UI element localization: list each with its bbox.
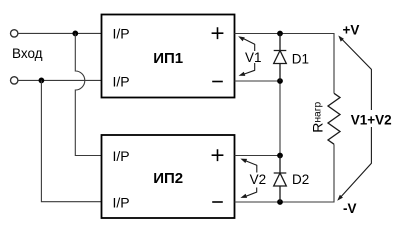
wire IP2 minus output to -V corner and up to resistor bottom (235, 144, 335, 202)
wire IP1 minus to IP2 plus series link (235, 81, 281, 156)
input terminal J1 (11, 30, 18, 37)
svg-text:I/P: I/P (113, 73, 130, 89)
wire IP1 plus output to +V corner and down to resistor (235, 34, 335, 94)
arrowhead to -V corner (337, 195, 343, 201)
svg-text:ИП2: ИП2 (153, 170, 183, 187)
svg-text:Rнагр: Rнагр (310, 102, 326, 133)
svg-text:D1: D1 (292, 52, 309, 67)
V1+V2 measurement line with arrows (339, 37, 372, 200)
svg-text:V2: V2 (250, 172, 267, 187)
V2 bracket arrow to IP2 minus (245, 188, 257, 197)
diode D2 (274, 156, 287, 203)
svg-text:I/P: I/P (113, 26, 130, 42)
power supply block IP1 (102, 15, 235, 98)
svg-text:V1: V1 (245, 50, 262, 65)
V1 bracket arrow to IP1 plus (243, 38, 255, 51)
svg-text:V1+V2: V1+V2 (351, 113, 392, 128)
resistor Rload zigzag (328, 93, 340, 144)
label V1+V2 (349, 110, 393, 127)
node D2 bottom (277, 199, 283, 205)
node D1 bottom (277, 78, 283, 84)
node D1 top (277, 31, 283, 37)
wire from bottom junction down to IP2 lower I/P (41, 80, 101, 201)
svg-text:ИП1: ИП1 (153, 50, 183, 67)
arrowhead to +V corner (338, 36, 344, 42)
wire bottom input to IP1 lower I/P (18, 79, 101, 81)
svg-text:-V: -V (343, 201, 357, 216)
wire top input to IP1 upper I/P (18, 32, 101, 34)
svg-text:I/P: I/P (113, 148, 130, 164)
wire from top junction down with hop to IP2 upper I/P (75, 33, 101, 155)
power supply block IP2 (102, 135, 235, 218)
input terminal J2 (11, 77, 18, 84)
node D2 top (277, 153, 283, 159)
diode D1 (274, 34, 287, 82)
node junction top input (72, 31, 78, 37)
V1 bracket arrow to IP1 minus (244, 63, 255, 74)
node junction bottom input (39, 78, 45, 84)
V2 bracket arrow to IP2 plus (246, 161, 257, 173)
svg-text:+V: +V (343, 23, 360, 38)
svg-text:I/P: I/P (113, 195, 130, 211)
svg-text:D2: D2 (292, 172, 309, 187)
svg-text:Вход: Вход (12, 46, 43, 61)
